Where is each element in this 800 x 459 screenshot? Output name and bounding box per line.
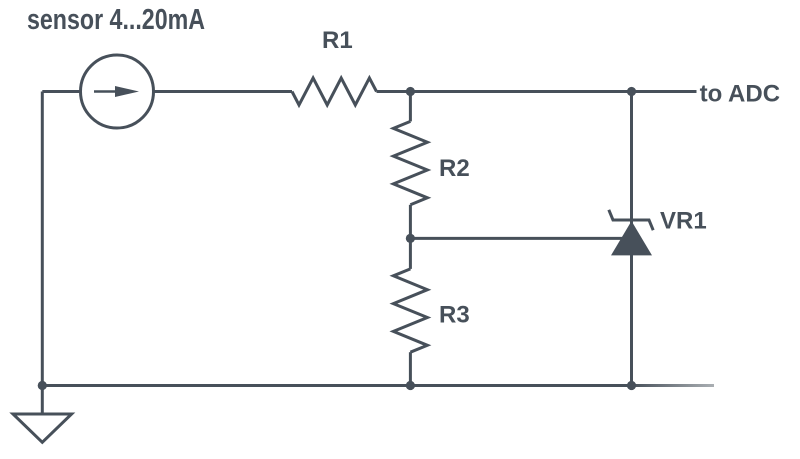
wire: bottom rail bbox=[42, 384, 631, 387]
node D (junction R3 / bottom rail) bbox=[406, 381, 415, 390]
node E (junction VR1 / bottom rail) bbox=[627, 381, 636, 390]
node A (junction R1 / R2 / top rail) bbox=[406, 87, 415, 96]
svg-text:R1: R1 bbox=[322, 27, 353, 54]
svg-text:R3: R3 bbox=[439, 302, 470, 329]
resistor R3 bbox=[393, 238, 427, 385]
node C (junction R2 / R3 / wire to VR1) bbox=[406, 234, 415, 243]
zener diode VR1 bbox=[609, 92, 653, 386]
resistor R2 bbox=[393, 92, 427, 239]
svg-text:VR1: VR1 bbox=[660, 207, 707, 234]
current source (sensor) bbox=[81, 55, 154, 128]
node G (ground junction) bbox=[38, 381, 47, 390]
svg-text:R2: R2 bbox=[439, 155, 470, 182]
wire: node B to ADC stub bbox=[632, 90, 697, 93]
node B (junction top rail / VR1 cathode) bbox=[627, 87, 636, 96]
ground bbox=[13, 386, 72, 443]
wire: top rail node A to node B bbox=[410, 90, 631, 93]
resistor R1 bbox=[292, 78, 377, 105]
wire: R1 to node A bbox=[377, 90, 411, 93]
wire: bottom rail faded stub bbox=[632, 384, 715, 387]
svg-text:to ADC: to ADC bbox=[700, 81, 780, 108]
wire: node C to VR1 bbox=[410, 237, 631, 240]
wire: top-left from corner to current source bbox=[42, 90, 80, 93]
wire: current source to R1 bbox=[154, 90, 293, 93]
svg-text:sensor 4...20mA: sensor 4...20mA bbox=[27, 4, 205, 36]
wire: left column vertical (top rail to bottom rail) bbox=[41, 92, 44, 386]
